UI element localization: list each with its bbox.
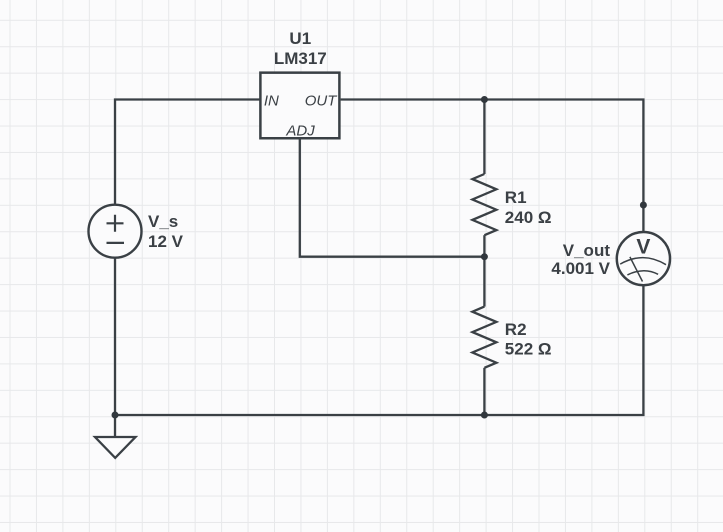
svg-text:12 V: 12 V bbox=[148, 232, 184, 251]
voltage source V_s bbox=[89, 205, 184, 258]
wire bbox=[114, 415, 116, 437]
wire bbox=[300, 139, 485, 257]
svg-text:LM317: LM317 bbox=[274, 49, 327, 68]
wire bbox=[483, 257, 485, 307]
svg-text:V_out: V_out bbox=[563, 241, 611, 260]
wire bbox=[483, 100, 485, 175]
resistor R2 bbox=[472, 307, 496, 368]
node ADJ/R1/R2 bbox=[481, 253, 488, 260]
node at R1 top bbox=[481, 96, 488, 103]
wire bbox=[114, 258, 116, 415]
svg-text:4.001 V: 4.001 V bbox=[551, 259, 610, 278]
svg-text:IN: IN bbox=[264, 92, 279, 109]
wire bbox=[115, 100, 260, 205]
wire bbox=[483, 368, 485, 415]
wire bbox=[341, 100, 644, 233]
svg-text:240 Ω: 240 Ω bbox=[505, 208, 552, 227]
wire bbox=[115, 285, 643, 415]
voltmeter V_out bbox=[551, 232, 670, 285]
svg-text:V_s: V_s bbox=[148, 212, 178, 231]
svg-text:V: V bbox=[636, 236, 650, 259]
node ground bbox=[112, 412, 119, 419]
svg-text:R1: R1 bbox=[505, 188, 527, 207]
resistor R2 labels bbox=[505, 320, 552, 359]
svg-text:U1: U1 bbox=[289, 29, 311, 48]
svg-text:R2: R2 bbox=[505, 320, 527, 339]
resistor R1 bbox=[472, 174, 496, 235]
resistor R1 labels bbox=[505, 188, 552, 227]
svg-text:522 Ω: 522 Ω bbox=[505, 340, 552, 359]
node junction dots bbox=[112, 96, 647, 419]
wire bbox=[483, 235, 485, 257]
node at voltmeter top bbox=[640, 202, 647, 209]
node R2 bottom bbox=[481, 412, 488, 419]
op-amp U1 (LM317 regulator box) bbox=[260, 29, 339, 139]
ground bbox=[95, 437, 136, 458]
svg-text:OUT: OUT bbox=[305, 92, 339, 109]
svg-text:ADJ: ADJ bbox=[285, 123, 315, 140]
